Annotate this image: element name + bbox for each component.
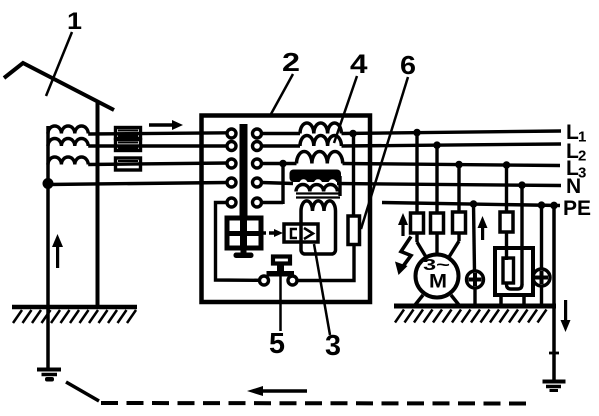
choke coil L2 (in box) bbox=[300, 136, 341, 147]
transformer primary band winding on N bbox=[290, 170, 342, 183]
motor fuse 2 bbox=[431, 213, 444, 233]
transformer middle winding bbox=[296, 185, 337, 192]
svg-text:5: 5 bbox=[269, 328, 285, 360]
transformer core bbox=[296, 192, 340, 194]
line N to right bbox=[337, 184, 561, 186]
surge arrester stack bbox=[227, 218, 261, 248]
leader line to 3 bbox=[314, 244, 330, 335]
earth electrode right bbox=[543, 380, 566, 384]
arrester stem bbox=[241, 248, 247, 253]
bonding point at motor bbox=[467, 271, 484, 288]
appliance N tap bbox=[520, 185, 523, 285]
wire L3 pole to box bbox=[88, 163, 228, 165]
terminal circles row L1 bbox=[227, 129, 236, 138]
appliance box bbox=[495, 248, 533, 295]
appliance branch L3 tap bbox=[505, 165, 508, 212]
wire resistor to L1 bbox=[352, 134, 355, 217]
line L3 to right bbox=[343, 164, 561, 166]
bonding point right bbox=[533, 269, 550, 286]
ground surface right bbox=[394, 304, 556, 309]
svg-text:3: 3 bbox=[325, 330, 341, 362]
node N tap at pole bbox=[43, 178, 54, 189]
motor branch L2 tap bbox=[435, 145, 438, 213]
arrow up at bonding bbox=[478, 216, 488, 240]
terminal circles row L3 bbox=[227, 159, 236, 168]
secondary winding loop bbox=[301, 201, 336, 254]
terminal circles row L2 bbox=[227, 142, 236, 151]
pushbutton bridge bbox=[267, 271, 295, 277]
device arrow symbol bbox=[304, 228, 313, 239]
wire row5 left loop to pushbutton bbox=[216, 203, 260, 281]
terminal circles row N bbox=[227, 178, 236, 187]
pushbutton contact right bbox=[288, 276, 297, 285]
mast / down lead of building bbox=[96, 102, 100, 307]
motor leg right bbox=[451, 295, 459, 305]
sense tap wire from L3 bbox=[281, 163, 284, 205]
appliance cartridge bbox=[503, 258, 514, 283]
PE bonding wire to motor bbox=[474, 204, 475, 272]
leader line to 2 bbox=[271, 74, 293, 114]
appliance leg right bbox=[522, 295, 526, 305]
PE tap to bonding point 2 bbox=[540, 205, 543, 270]
wire pushbutton to resistor bbox=[297, 245, 354, 281]
ground surface left bbox=[12, 305, 137, 310]
building roof with air terminal bbox=[4, 63, 114, 110]
tripping device box 3 bbox=[284, 224, 318, 242]
node on L3 bbox=[279, 160, 287, 168]
line L1 to right bbox=[342, 131, 562, 134]
bonding conductor dashed bbox=[101, 401, 531, 406]
svg-text:4: 4 bbox=[350, 49, 368, 79]
terminal circles row 5 (earth) bbox=[227, 198, 236, 207]
pole earth conductor bbox=[46, 126, 50, 371]
wire N pole to box bbox=[48, 183, 228, 185]
svg-text:2: 2 bbox=[282, 47, 300, 77]
line PE bbox=[382, 203, 560, 206]
wire L3 through box bbox=[262, 162, 297, 165]
surge current arrow up (pole) bbox=[52, 234, 63, 268]
disconnect busbar bbox=[240, 124, 248, 219]
pushbutton contact left bbox=[260, 276, 269, 285]
svg-text:PE: PE bbox=[563, 197, 591, 220]
choke coil L1 (in box) bbox=[300, 123, 341, 134]
pushbutton 5 cap bbox=[273, 257, 290, 264]
device contact symbol bbox=[291, 229, 297, 238]
svg-text:M: M bbox=[429, 272, 447, 293]
earth electrode left bbox=[37, 368, 61, 372]
svg-text:N: N bbox=[566, 175, 581, 198]
energy direction arrow bbox=[149, 123, 173, 126]
leader line to 6 bbox=[361, 77, 408, 229]
motor M bbox=[416, 255, 459, 298]
motor leg left bbox=[415, 295, 423, 305]
appliance fuse bbox=[500, 212, 513, 232]
fuse F2 (service line) bbox=[116, 140, 141, 151]
node on L1 bbox=[349, 130, 357, 138]
leader line to 1 bbox=[46, 32, 72, 96]
resistor 6 bbox=[348, 216, 360, 245]
leader line to 5 bbox=[279, 277, 282, 332]
arrester center cross bbox=[240, 220, 247, 246]
appliance leg left bbox=[499, 295, 503, 305]
motor branch L3 tap bbox=[457, 165, 460, 212]
arrow up at motor fuses bbox=[398, 213, 408, 236]
coil L2 (pole winding) bbox=[48, 139, 88, 147]
arrow down at PE conductor bbox=[561, 300, 571, 332]
coil L1 (pole winding) bbox=[48, 126, 88, 134]
test joint tick bbox=[549, 352, 559, 355]
wire L1 pole to box bbox=[88, 133, 228, 134]
PE down conductor bbox=[552, 205, 556, 382]
leader line to 4 bbox=[334, 76, 357, 143]
appliance internal loop bbox=[507, 282, 523, 289]
wire L2 through box bbox=[262, 144, 301, 147]
bonding current arrow left bbox=[258, 389, 307, 393]
wire L1 through box bbox=[262, 132, 301, 135]
wire row5 right bbox=[262, 201, 284, 204]
wire row N right bbox=[262, 183, 294, 184]
choke coil L3 (in box) bbox=[297, 152, 343, 164]
motor fuse 1 bbox=[411, 213, 424, 233]
distribution box 2 bbox=[202, 116, 371, 303]
coil L3 (pole winding) bbox=[48, 157, 88, 165]
svg-text:1: 1 bbox=[578, 129, 586, 146]
wire L2 pole to box bbox=[88, 144, 228, 147]
motor fuse 3 bbox=[453, 212, 466, 233]
dashed actuation arrow bbox=[261, 231, 274, 234]
svg-text:2: 2 bbox=[578, 148, 586, 165]
winding right end link bbox=[338, 176, 341, 196]
fuse F1 (service line) bbox=[116, 128, 141, 139]
motor branch L1 tap bbox=[415, 133, 418, 214]
svg-text:6: 6 bbox=[400, 50, 416, 80]
arrester foot electrode bbox=[234, 253, 254, 259]
line L2 to right bbox=[342, 144, 562, 146]
pushbutton stem bbox=[277, 263, 284, 272]
lightning surge arrow bbox=[401, 237, 411, 268]
fuse F3 (service line) bbox=[116, 158, 141, 170]
bonding conductor lead bbox=[66, 382, 99, 401]
svg-text:1: 1 bbox=[67, 8, 82, 35]
